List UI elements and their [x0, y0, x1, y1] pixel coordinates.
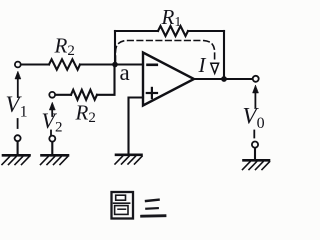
ground (V1) [2, 155, 30, 164]
svg-text:R2: R2 [75, 101, 96, 127]
svg-text:V2: V2 [42, 108, 63, 136]
node a junction dot [112, 62, 118, 68]
wire feedback right vertical [223, 31, 225, 79]
ground (op-amp + input) [115, 155, 142, 164]
terminal V0 output [253, 76, 259, 82]
ground (V2) [41, 155, 69, 164]
terminal V0 bottom [252, 142, 258, 148]
dashed current path I [116, 41, 215, 63]
wire op-amp + input [129, 98, 144, 154]
wire feedback left vertical [114, 31, 116, 65]
V0 polarity arrow [253, 85, 259, 107]
resistor R1 [158, 26, 188, 36]
wire V2 lower terminal to ground [51, 142, 53, 155]
resistor R2 (bottom) [71, 90, 97, 100]
svg-text:R2: R2 [54, 34, 75, 60]
caption 三 [142, 200, 165, 217]
terminal V2 top [49, 92, 55, 98]
wire output [194, 78, 253, 80]
op-amp U1 [143, 53, 194, 106]
wire R2 bottom to node a [97, 65, 115, 95]
V2 dashed stub [50, 131, 52, 136]
wire V2 terminal to R2 [55, 94, 71, 96]
V1 polarity arrow [15, 71, 21, 97]
V0 dashed stub [253, 131, 255, 138]
wire V0 lower terminal to ground [254, 148, 256, 160]
terminal V1 bottom [15, 135, 21, 141]
svg-text:I: I [198, 53, 207, 77]
svg-text:V0: V0 [243, 104, 265, 133]
wire R2 to op-amp inverting input [80, 63, 143, 65]
caption 圖 [112, 192, 134, 219]
resistor R2 (top) [49, 59, 80, 69]
wire feedback top left [115, 30, 158, 32]
V2 polarity arrow [49, 102, 55, 116]
svg-text:a: a [120, 60, 130, 85]
terminal V1 top [15, 62, 21, 68]
wire V1 lower terminal to ground [17, 141, 19, 154]
wire V1 terminal to R2 [22, 63, 50, 65]
wire feedback top right [188, 30, 224, 32]
terminal V2 bottom [49, 136, 55, 142]
svg-text:R1: R1 [161, 5, 182, 30]
ground (V0) [243, 160, 270, 169]
svg-text:V1: V1 [6, 92, 28, 121]
op-amp plus sign [147, 88, 157, 98]
V1 dashed stub [17, 119, 19, 128]
hollow arrowhead of I [211, 63, 219, 73]
op-amp minus sign [148, 64, 157, 67]
output node junction dot [221, 76, 227, 82]
